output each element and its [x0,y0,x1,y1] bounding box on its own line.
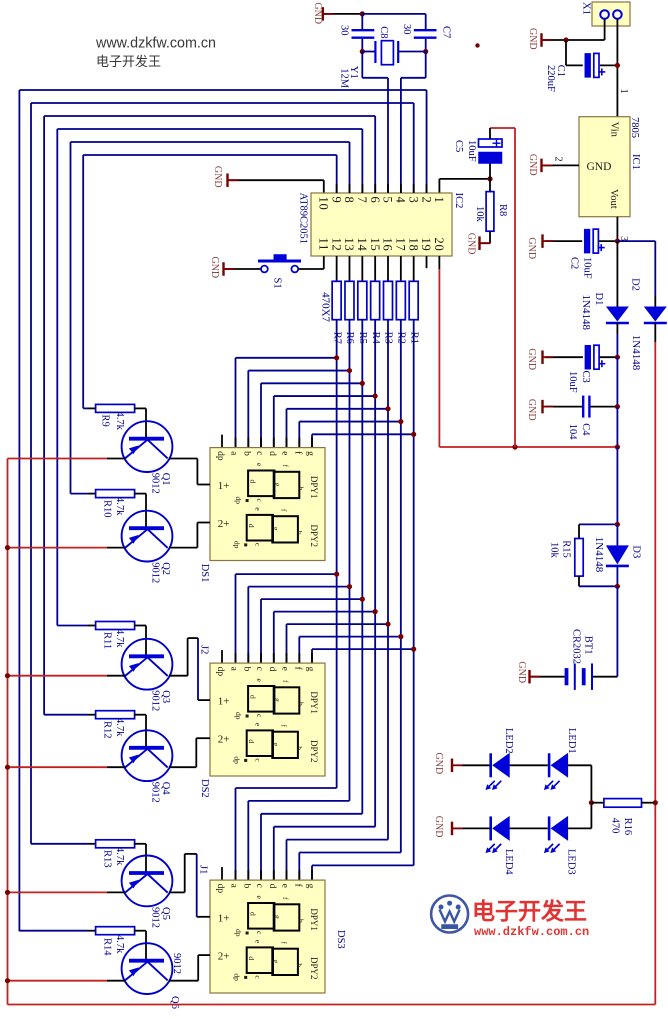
svg-text:1N4148: 1N4148 [580,295,592,331]
svg-text:GND: GND [527,154,538,176]
svg-text:Q1: Q1 [160,473,171,486]
svg-text:R14: R14 [102,938,113,956]
svg-text:4.7k: 4.7k [114,718,125,737]
svg-text:9012: 9012 [149,473,160,494]
svg-text:DPY1: DPY1 [309,691,319,714]
svg-text:104: 104 [567,424,578,441]
svg-text:10uF: 10uF [466,140,477,162]
svg-text:2+: 2+ [218,951,230,963]
svg-text:d: d [249,480,258,484]
svg-text:dp: dp [234,929,243,937]
svg-text:1+: 1+ [218,480,230,492]
svg-text:LED3: LED3 [566,849,577,875]
svg-text:d: d [249,695,258,699]
svg-text:30: 30 [401,24,412,35]
svg-text:D3: D3 [630,545,641,558]
svg-text:J1: J1 [197,865,208,874]
svg-text:X1: X1 [581,2,592,15]
svg-text:g: g [273,698,282,702]
svg-text:S1: S1 [272,278,283,289]
svg-text:R9: R9 [100,415,111,427]
svg-text:Q6: Q6 [169,996,180,1009]
svg-text:g: g [305,667,315,672]
svg-text:Q4: Q4 [160,782,171,796]
svg-text:DPY1: DPY1 [309,476,319,499]
svg-text:15: 15 [368,238,382,252]
svg-text:LED1: LED1 [566,728,577,754]
svg-text:R12: R12 [102,721,113,739]
svg-text:d: d [267,884,277,889]
svg-text:AT89C2051: AT89C2051 [298,193,309,244]
svg-text:30: 30 [339,25,350,36]
svg-text:d: d [247,524,256,528]
svg-text:D2: D2 [630,278,641,291]
svg-text:g: g [272,742,281,746]
svg-text:2+: 2+ [218,518,230,530]
svg-text:d: d [267,451,277,456]
svg-text:C8: C8 [378,26,389,38]
svg-text:g: g [273,915,282,919]
svg-text:Vout: Vout [608,189,619,209]
svg-text:b: b [297,702,306,706]
svg-text:CR2032: CR2032 [571,629,582,664]
svg-text:9012: 9012 [149,690,160,711]
svg-text:dp: dp [215,667,225,677]
svg-text:19: 19 [419,238,433,252]
svg-text:J2: J2 [199,645,210,654]
svg-text:10k: 10k [548,542,559,559]
svg-text:dp: dp [233,973,242,981]
svg-text:1+: 1+ [218,696,230,708]
svg-text:12: 12 [329,238,343,252]
svg-text:9012: 9012 [149,907,160,928]
svg-text:17: 17 [394,238,408,252]
svg-text:R16: R16 [622,818,633,836]
svg-text:4.7k: 4.7k [114,935,125,954]
svg-text:d: d [249,912,258,916]
svg-text:dp: dp [233,756,242,764]
svg-text:c: c [254,884,264,888]
svg-text:18: 18 [406,238,420,252]
svg-text:GND: GND [526,399,537,421]
svg-text:C4: C4 [580,423,591,436]
svg-text:20: 20 [432,238,446,252]
svg-text:GND: GND [516,661,527,683]
svg-text:GND: GND [209,257,220,279]
svg-text:www.dzkfw.com.cn: www.dzkfw.com.cn [474,925,589,939]
svg-text:d: d [247,739,256,743]
svg-text:R8: R8 [497,204,508,216]
svg-text:dp: dp [233,541,242,549]
svg-text:g: g [305,884,315,889]
svg-text:10k: 10k [474,206,485,223]
svg-text:b: b [297,919,306,923]
svg-text:GND: GND [526,237,537,259]
svg-text:4.7k: 4.7k [114,847,125,866]
svg-text:b: b [242,667,252,672]
svg-text:Vin: Vin [609,122,620,138]
svg-text:c: c [254,667,264,671]
svg-text:R15: R15 [560,540,571,558]
svg-text:DPY2: DPY2 [309,957,319,980]
svg-text:16: 16 [381,238,395,252]
svg-text:DS2: DS2 [199,779,210,798]
svg-text:10: 10 [317,197,331,211]
svg-text:GND: GND [312,2,323,24]
svg-text:220uF: 220uF [545,65,556,92]
svg-text:1: 1 [618,89,629,94]
svg-text:12M: 12M [339,68,350,89]
svg-text:1N4148: 1N4148 [630,335,642,371]
svg-text:4.7k: 4.7k [114,629,125,648]
svg-text:IC2: IC2 [453,193,464,209]
svg-text:GND: GND [587,161,612,173]
svg-text:4.7k: 4.7k [114,412,125,431]
svg-text:14: 14 [355,238,369,252]
svg-text:dp: dp [234,712,243,720]
svg-text:dp: dp [234,497,243,505]
svg-text:dp: dp [215,884,225,894]
svg-text:R10: R10 [102,500,113,518]
svg-text:Q2: Q2 [160,562,171,575]
svg-text:R13: R13 [102,850,113,868]
svg-text:DPY2: DPY2 [309,525,319,548]
svg-text:LED2: LED2 [503,728,514,754]
svg-text:c: c [254,451,264,455]
svg-text:GND: GND [433,753,444,775]
svg-text:Q5: Q5 [160,907,171,920]
svg-text:d: d [247,956,256,960]
svg-text:D1: D1 [593,293,604,306]
svg-text:b: b [295,746,304,750]
svg-text:BT1: BT1 [583,636,594,655]
svg-text:10uF: 10uF [567,371,578,393]
svg-text:DPY1: DPY1 [309,908,319,931]
svg-text:www.dzkfw.com.cn: www.dzkfw.com.cn [95,36,216,52]
svg-text:1N4148: 1N4148 [593,537,605,573]
svg-text:b: b [242,451,252,456]
svg-text:e: e [280,451,290,455]
svg-text:C3: C3 [580,371,591,383]
svg-text:1+: 1+ [218,913,230,925]
svg-text:g: g [305,451,315,456]
svg-text:g: g [272,527,281,531]
svg-text:GND: GND [433,816,444,838]
svg-text:R11: R11 [102,632,113,649]
svg-text:C1: C1 [555,65,566,77]
svg-text:C7: C7 [441,26,452,38]
svg-text:e: e [280,884,290,888]
svg-text:GND: GND [526,348,537,370]
svg-text:g: g [273,483,282,487]
svg-text:DS1: DS1 [199,564,210,583]
svg-text:dp: dp [215,451,225,461]
svg-text:b: b [242,884,252,889]
svg-text:e: e [280,667,290,671]
svg-text:2+: 2+ [218,734,230,746]
svg-text:9012: 9012 [149,782,160,803]
svg-text:9012: 9012 [171,953,182,974]
svg-text:LED4: LED4 [503,849,514,875]
svg-text:b: b [295,531,304,535]
svg-text:470X7: 470X7 [320,292,332,322]
svg-text:13: 13 [342,238,356,252]
svg-text:DS3: DS3 [335,930,346,949]
svg-text:4.7k: 4.7k [114,497,125,516]
svg-text:10uF: 10uF [581,257,592,279]
svg-text:b: b [297,487,306,491]
svg-text:470: 470 [609,818,620,834]
svg-text:d: d [267,667,277,672]
svg-text:电子开发王: 电子开发王 [472,898,587,924]
svg-text:7805: 7805 [629,117,640,138]
svg-text:Q3: Q3 [160,690,171,703]
svg-text:g: g [272,959,281,963]
svg-text:电子开发王: 电子开发王 [96,54,161,69]
svg-text:9012: 9012 [149,562,160,583]
svg-text:GND: GND [212,166,223,188]
svg-text:2: 2 [553,156,564,161]
svg-text:GND: GND [465,233,476,255]
svg-text:IC1: IC1 [630,154,641,170]
svg-text:b: b [295,963,304,967]
svg-text:C5: C5 [453,140,464,152]
svg-text:GND: GND [527,28,538,50]
svg-text:11: 11 [317,238,331,252]
svg-text:C2: C2 [569,257,580,269]
svg-text:DPY2: DPY2 [309,740,319,763]
